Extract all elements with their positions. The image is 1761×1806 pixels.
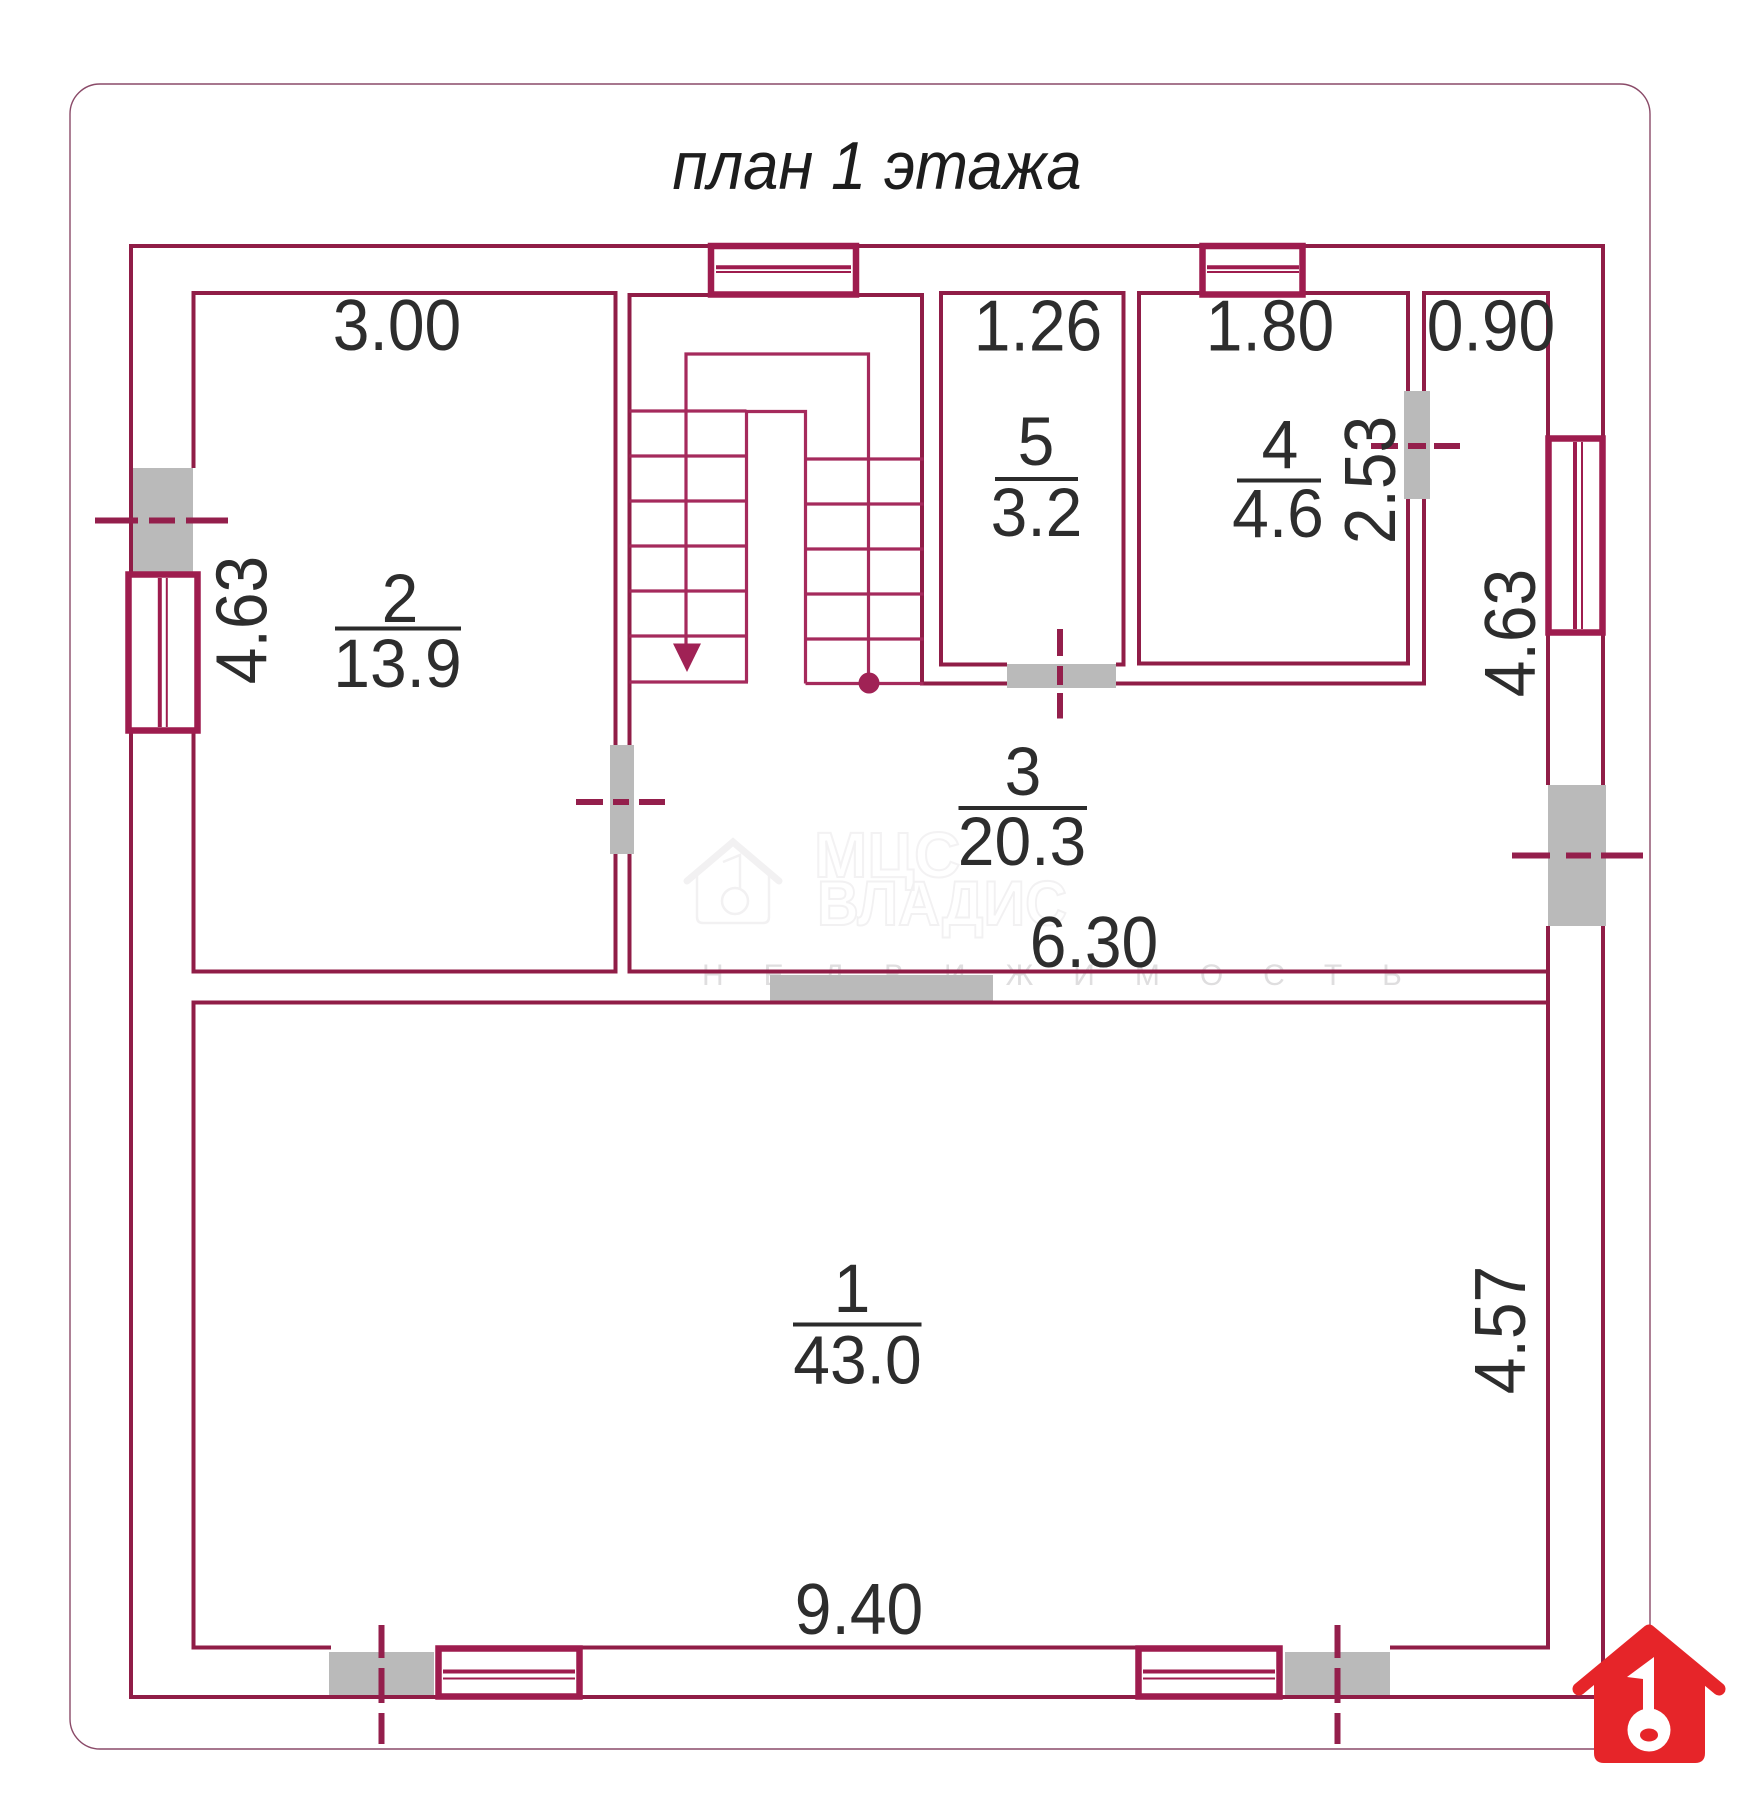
svg-text:4.6: 4.6 <box>1232 476 1324 552</box>
wall right inner middle <box>1546 631 1550 785</box>
wall niche top <box>1422 291 1550 295</box>
svg-text:20.3: 20.3 <box>958 804 1086 880</box>
watermark house logo outline <box>687 842 779 923</box>
svg-text:43.0: 43.0 <box>793 1322 921 1398</box>
wall left inner below window <box>192 731 196 974</box>
stair tread left 4 <box>630 544 747 547</box>
wall room4 right upper <box>1406 291 1410 391</box>
wall room4 top left segment <box>1137 291 1204 295</box>
svg-text:5: 5 <box>1018 404 1055 480</box>
wall stair hall top left segment <box>628 293 714 297</box>
wall corridor bottom <box>628 970 1551 974</box>
door dash bottom left <box>379 1625 385 1744</box>
stair tread left 2 <box>630 454 747 457</box>
wall room2 right upper <box>614 291 618 745</box>
stair tread left 1 <box>630 409 747 412</box>
room label 1 fraction line <box>793 1323 922 1327</box>
staircase <box>630 354 924 684</box>
wall niche left lower <box>1422 499 1426 686</box>
door gray box bottom wall right <box>1285 1652 1390 1697</box>
room label 5 / 3.2 <box>991 404 1083 551</box>
window bottom right <box>1139 1649 1280 1697</box>
wall room2 right lower <box>614 854 618 974</box>
window top B <box>1203 246 1303 295</box>
svg-text:2.53: 2.53 <box>1329 416 1411 544</box>
stair tread right 1 <box>806 457 924 460</box>
svg-text:0.90: 0.90 <box>1427 285 1555 367</box>
wall stair hall top right segment <box>853 293 924 297</box>
wall niche left upper <box>1422 291 1426 391</box>
window top A <box>711 246 856 295</box>
wall corridor top right 2 <box>1116 682 1426 686</box>
room label 2 fraction line <box>335 627 461 631</box>
door gray box left wall <box>133 468 193 574</box>
room label 2 / 13.9 <box>333 561 461 702</box>
wall room1 top <box>192 1001 1551 1005</box>
door axis dashes <box>95 446 1643 1744</box>
svg-text:план 1 этажа: план 1 этажа <box>672 129 1081 204</box>
wall right inner bottom <box>1546 926 1550 1650</box>
wall left inner above door <box>192 291 196 468</box>
stair walk start dot <box>859 673 880 694</box>
stair right run bottom <box>806 682 924 685</box>
stair tread left 5 <box>630 589 747 592</box>
door dash bottom right <box>1335 1625 1341 1744</box>
room label 3 fraction line <box>959 806 1088 810</box>
svg-text:4.57: 4.57 <box>1459 1266 1541 1394</box>
room label 5 fraction line <box>995 477 1078 481</box>
wall left inner room1 <box>192 1001 196 1650</box>
svg-text:4: 4 <box>1262 407 1299 483</box>
wall room1 bottom segment b <box>578 1646 1140 1650</box>
wall corridor left upper <box>628 293 632 745</box>
logo house red <box>1579 1626 1719 1763</box>
door gray box corridor/room1 <box>770 975 993 1001</box>
door dash room2/corridor <box>576 799 665 805</box>
wall room1 bottom segment c <box>1390 1646 1550 1650</box>
wall room2 top <box>192 291 618 295</box>
svg-text:4.63: 4.63 <box>201 556 283 684</box>
svg-text:3: 3 <box>1005 734 1042 810</box>
svg-text:6.30: 6.30 <box>1030 901 1158 983</box>
wall room5 bottom right segment <box>1116 663 1126 667</box>
wall room4 left <box>1137 291 1141 666</box>
door gray box right wall <box>1548 785 1606 926</box>
wall room5 left <box>939 291 943 667</box>
svg-text:13.9: 13.9 <box>333 626 461 702</box>
wall corridor left lower <box>628 854 632 974</box>
stair left run bottom <box>630 680 749 683</box>
door gray box room4/niche <box>1404 391 1430 499</box>
door dash right wall <box>1512 853 1643 859</box>
room label 4 / 4.6 <box>1232 407 1324 552</box>
svg-text:1: 1 <box>834 1251 871 1327</box>
door dash room4/niche <box>1371 443 1460 449</box>
door dash left wall <box>95 518 228 524</box>
svg-text:3.2: 3.2 <box>991 475 1083 551</box>
stair walk arrow head <box>673 644 701 673</box>
door dash room5 bottom <box>1057 629 1063 719</box>
window right wall <box>1549 439 1603 633</box>
wall room5 top <box>939 291 1126 295</box>
svg-text:1.26: 1.26 <box>974 285 1102 367</box>
stair tread left 6 <box>630 634 747 637</box>
svg-text:3.00: 3.00 <box>333 284 461 366</box>
stair tread right 3 <box>806 547 924 550</box>
window bottom left <box>439 1649 580 1697</box>
wall right inner top <box>1546 291 1550 440</box>
wall stair hall right <box>920 293 924 686</box>
svg-text:1.80: 1.80 <box>1206 285 1334 367</box>
wall room4 right lower <box>1406 499 1410 666</box>
stair center divider <box>747 412 806 684</box>
stair tread left 3 <box>630 499 747 502</box>
door gray box room2/corridor <box>610 745 634 854</box>
wall room5 right <box>1122 291 1126 667</box>
wall outer bottom <box>129 1695 1605 1699</box>
building outer walls <box>129 244 1605 1699</box>
stair tread right 4 <box>806 592 924 595</box>
door gray box room5 bottom <box>1007 664 1116 688</box>
wall room5 bottom left segment <box>939 663 1007 667</box>
room label 4 fraction line <box>1237 479 1321 483</box>
logo house numeral 1 with key <box>1627 1657 1671 1752</box>
stair tread right 5 <box>806 637 924 640</box>
room label 3 / 20.3 <box>958 734 1086 880</box>
wall outer left <box>129 244 133 1699</box>
svg-text:4.63: 4.63 <box>1469 569 1551 697</box>
room label 1 / 43.0 <box>793 1251 921 1399</box>
stair walk line <box>686 354 869 680</box>
stair tread right 2 <box>806 502 924 505</box>
window left wall <box>129 575 198 731</box>
interior walls <box>192 291 1551 1650</box>
wall corridor top right <box>920 682 1007 686</box>
wall room2 bottom <box>192 970 618 974</box>
door gray box bottom wall left <box>329 1652 434 1697</box>
wall room1 bottom segment a <box>192 1646 332 1650</box>
svg-text:9.40: 9.40 <box>795 1568 923 1650</box>
wall outer top <box>129 244 1605 248</box>
wall room4 bottom <box>1137 662 1410 666</box>
wall room4 top right segment <box>1301 291 1410 295</box>
wall outer right <box>1601 244 1605 1699</box>
